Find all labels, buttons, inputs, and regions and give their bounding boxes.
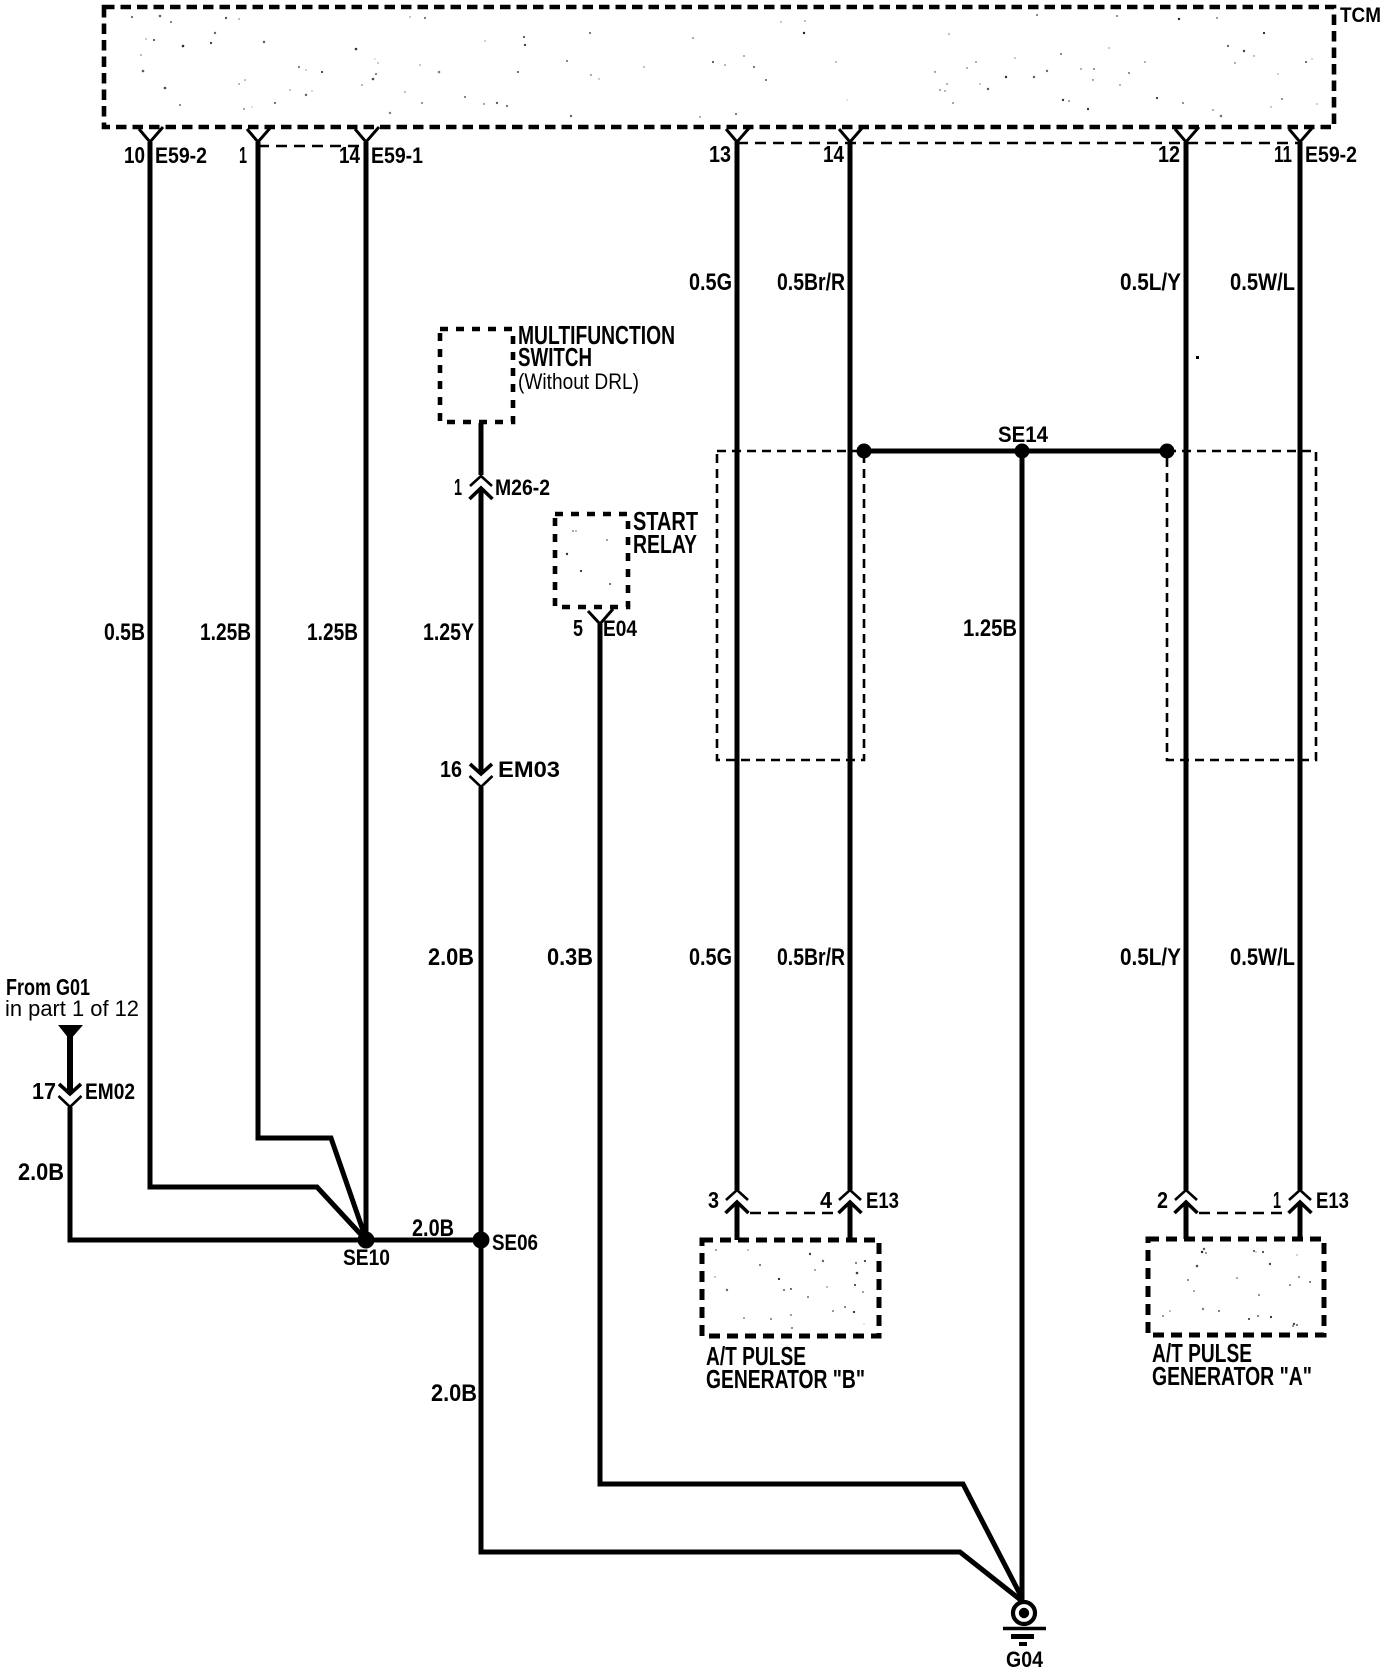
shield box left (dashed) [717, 451, 864, 760]
shield box right (dashed) [1167, 451, 1316, 760]
start relay label [633, 506, 698, 559]
svg-text:12: 12 [1158, 141, 1180, 167]
connector M26-2 (inline, pin 1) [454, 474, 550, 500]
svg-text:4: 4 [820, 1187, 832, 1213]
wire G01 to EM02 [67, 1036, 73, 1094]
label 0.5B [104, 619, 145, 646]
svg-text:1: 1 [1273, 1187, 1281, 1213]
svg-text:SWITCH: SWITCH [518, 342, 592, 372]
connector pin 12 E59-2 (V symbol) [1158, 127, 1199, 167]
TCM module box [104, 7, 1334, 127]
wire pin1 horizontal to SE10 [256, 1138, 367, 1239]
G01 arrow [58, 1025, 83, 1040]
E59-1 connector dashed line [258, 145, 366, 147]
svg-text:in part 1 of 12: in part 1 of 12 [5, 996, 139, 1021]
From G01 note [5, 974, 139, 1021]
stray scan dot [1196, 356, 1199, 359]
label 2.0B lower [431, 1380, 477, 1407]
svg-text:EM02: EM02 [85, 1079, 135, 1104]
wire pin14 1.25B vertical to SE10 [364, 142, 369, 1240]
E59-2 connector dashed line [737, 142, 1300, 144]
label 0.5Br/R upper [777, 269, 845, 296]
label 1.25B SE14 wire [963, 615, 1017, 642]
svg-text:0.5L/Y: 0.5L/Y [1120, 944, 1181, 971]
svg-text:0.5Br/R: 0.5Br/R [777, 944, 845, 971]
svg-text:1.25B: 1.25B [200, 619, 251, 646]
wire SE14 1.25B to G04 [1020, 451, 1025, 1600]
connector E13 pin 3 (inline) [708, 1187, 749, 1213]
connector pin 1 E59-1 (V symbol) [239, 127, 271, 168]
connector EM02 (inline, pin 17) [32, 1078, 135, 1107]
TCM label [1340, 4, 1381, 27]
svg-text:2.0B: 2.0B [18, 1159, 64, 1186]
SE10 junction dot [358, 1232, 375, 1249]
svg-text:E59-1: E59-1 [371, 143, 423, 168]
label 0.5W/L lower [1230, 944, 1295, 971]
svg-text:0.5B: 0.5B [104, 619, 145, 646]
connector pin 13 E59-2 (V symbol) [709, 127, 750, 167]
wire pin10 horizontal to SE10 [148, 1187, 367, 1240]
ground G04 symbol [1003, 1602, 1046, 1644]
wire M26-2 to EM03 1.25Y [479, 489, 484, 772]
SE14 label [998, 422, 1049, 447]
svg-text:SE06: SE06 [492, 1230, 538, 1255]
svg-text:E59-2: E59-2 [1305, 142, 1357, 167]
svg-text:1.25B: 1.25B [963, 615, 1017, 642]
svg-text:0.5G: 0.5G [689, 944, 732, 971]
start relay box [555, 514, 628, 607]
wire pin1 1.25B vertical [256, 142, 261, 1138]
svg-text:0.5W/L: 0.5W/L [1230, 944, 1295, 971]
SE14 junction dot left [857, 444, 872, 459]
wire EM03 to SE06 2.0B [479, 787, 484, 1240]
connector E13 pin 4 (inline) [820, 1187, 899, 1213]
label 1.25B wire pin1 [200, 619, 251, 646]
wire EM02 to SE10 2.0B [68, 1107, 367, 1240]
wire E13 pin3 stem [735, 1204, 740, 1240]
svg-text:0.3B: 0.3B [547, 944, 593, 971]
label 0.3B [547, 944, 593, 971]
wire E04 horizontal to G04 [598, 1484, 1023, 1598]
svg-text:G04: G04 [1006, 1647, 1044, 1672]
svg-text:2.0B: 2.0B [431, 1380, 477, 1407]
svg-text:1: 1 [239, 142, 247, 168]
wire E13 pin2 stem [1184, 1204, 1189, 1239]
wire multifunction switch to M26-2 [479, 423, 484, 475]
svg-text:13: 13 [709, 141, 731, 167]
label 2.0B SE10-SE06 [412, 1215, 454, 1242]
SE06 junction dot [473, 1232, 490, 1249]
label 0.5Br/R lower [777, 944, 845, 971]
A/T pulse generator A box [1148, 1239, 1324, 1335]
svg-text:2.0B: 2.0B [428, 944, 474, 971]
wire pin12 0.5L/Y vertical [1184, 142, 1189, 1190]
wire pin10 0.5B vertical [148, 142, 153, 1187]
SE10 label [343, 1245, 390, 1270]
label 0.5G upper [689, 269, 732, 296]
label 1.25Y [423, 619, 474, 646]
svg-text:3: 3 [708, 1187, 719, 1213]
connector pin 11 E59-2 (V symbol) [1274, 127, 1357, 167]
svg-text:10: 10 [124, 142, 145, 168]
connector E13 pin 1 (inline) [1273, 1187, 1349, 1213]
label 0.5G lower [689, 944, 732, 971]
wire E13 pin1 stem [1298, 1204, 1303, 1239]
multifunction switch label [518, 320, 675, 394]
label 0.5L/Y upper [1120, 269, 1181, 296]
label 0.5L/Y lower [1120, 944, 1181, 971]
E13 connector dashed line (A) [1199, 1212, 1288, 1214]
svg-text:11: 11 [1274, 141, 1292, 167]
G04 label [1006, 1647, 1044, 1672]
svg-text:5: 5 [573, 615, 583, 641]
wire pin14R 0.5Br/R vertical [848, 142, 853, 1190]
connector E04 pin 5 (V symbol) [573, 609, 638, 641]
svg-text:0.5W/L: 0.5W/L [1230, 269, 1295, 296]
connector pin 14 E59-2 (V symbol) [823, 127, 863, 167]
label 1.25B wire pin14 [307, 619, 358, 646]
svg-text:SE14: SE14 [998, 422, 1049, 447]
SE14 shield wire [864, 449, 1167, 454]
A/T pulse generator B label [706, 1341, 865, 1394]
SE06 label [492, 1230, 538, 1255]
svg-text:E13: E13 [1316, 1188, 1349, 1213]
label 0.5W/L upper [1230, 269, 1295, 296]
A/T pulse generator B box [702, 1240, 879, 1336]
E13 connector dashed line (B) [750, 1212, 839, 1214]
svg-text:(Without DRL): (Without DRL) [518, 369, 639, 394]
SE14 junction dot middle [1015, 444, 1030, 459]
svg-text:SE10: SE10 [343, 1245, 390, 1270]
wire SE10 to SE06 [366, 1238, 481, 1243]
svg-text:16: 16 [440, 756, 462, 782]
wire E04 0.3B vertical [598, 624, 603, 1484]
label 2.0B EM02 wire [18, 1159, 64, 1186]
svg-text:14: 14 [823, 141, 844, 167]
svg-text:GENERATOR "B": GENERATOR "B" [706, 1364, 865, 1394]
svg-text:0.5G: 0.5G [689, 269, 732, 296]
svg-text:M26-2: M26-2 [495, 475, 550, 500]
A/T pulse generator A label [1152, 1338, 1312, 1391]
wire SE06 to G04 2.0B [479, 1240, 1023, 1601]
connector EM03 (inline, pin 16) [440, 756, 560, 787]
svg-text:1.25B: 1.25B [307, 619, 358, 646]
SE14 junction dot right [1160, 444, 1175, 459]
wire pin11 0.5W/L vertical [1298, 142, 1303, 1190]
svg-text:2: 2 [1157, 1187, 1168, 1213]
svg-text:2.0B: 2.0B [412, 1215, 454, 1242]
wire E13 pin4 stem [848, 1204, 853, 1240]
label 2.0B upper [428, 944, 474, 971]
svg-text:E59-2: E59-2 [155, 143, 207, 168]
svg-text:RELAY: RELAY [633, 529, 697, 559]
wire pin13 0.5G vertical [735, 142, 740, 1190]
connector pin 14 E59-1 (V symbol) [339, 127, 423, 168]
multifunction switch box [440, 329, 513, 422]
svg-text:1: 1 [454, 474, 462, 500]
svg-text:1.25Y: 1.25Y [423, 619, 474, 646]
connector pin 10 E59-2 (V symbol) [124, 127, 207, 168]
svg-text:E04: E04 [603, 616, 638, 641]
svg-text:TCM: TCM [1340, 4, 1381, 27]
svg-text:0.5Br/R: 0.5Br/R [777, 269, 845, 296]
svg-text:17: 17 [32, 1078, 56, 1104]
svg-text:0.5L/Y: 0.5L/Y [1120, 269, 1181, 296]
svg-text:E13: E13 [866, 1188, 899, 1213]
svg-text:GENERATOR "A": GENERATOR "A" [1152, 1361, 1312, 1391]
svg-text:EM03: EM03 [498, 757, 560, 782]
connector E13 pin 2 (inline) [1157, 1187, 1198, 1213]
